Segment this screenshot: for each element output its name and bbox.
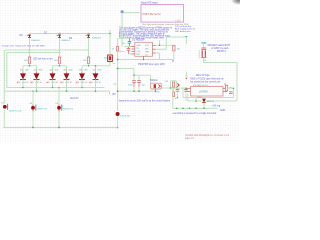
svg-text:everything is powered by a sin: everything is powered by a single 12v ba… xyxy=(173,112,218,115)
svg-text:LED: LED xyxy=(54,70,59,72)
bus corner vertical xyxy=(109,34,111,66)
diode D10 xyxy=(198,96,215,108)
left return vertical 1 xyxy=(3,50,5,104)
pin stub below U1 xyxy=(143,56,145,59)
right-top note lines xyxy=(175,25,195,33)
svg-text:MOSFET switch BATT: MOSFET switch BATT xyxy=(208,44,231,47)
svg-text:500k lin: 500k lin xyxy=(150,80,159,82)
RV3 tail resistor xyxy=(172,88,177,100)
ground bus right xyxy=(173,107,218,109)
capacitor C8 xyxy=(137,81,146,92)
U1 left pins xyxy=(132,47,135,55)
svg-text:A(D: A(D xyxy=(60,81,64,84)
svg-text:CW: CW xyxy=(156,91,160,93)
svg-text:PS8 P.25e GeTU: PS8 P.25e GeTU xyxy=(143,13,161,16)
transistor Q3 package xyxy=(199,48,206,62)
right loop wires xyxy=(173,88,237,108)
svg-text:LED: LED xyxy=(25,70,30,72)
svg-text:100uF 16 volt: 100uF 16 volt xyxy=(9,110,22,113)
left return vertical 2 xyxy=(6,53,8,88)
gnd bus junctions xyxy=(176,108,205,110)
rail2 junctions xyxy=(32,90,96,92)
svg-text:A(D: A(D xyxy=(76,81,80,84)
svg-text:THR: THR xyxy=(145,52,150,54)
svg-text:PWM 555 timer aprx 1kHz: PWM 555 timer aprx 1kHz xyxy=(138,63,166,66)
LED D8 xyxy=(76,70,89,88)
title block text xyxy=(185,134,230,140)
junctions net B xyxy=(170,87,178,89)
PSU connector box xyxy=(141,5,184,23)
bus junctions xyxy=(32,127,118,129)
wire cap feed xyxy=(173,87,186,89)
junction xyxy=(117,68,119,70)
svg-text:1N4148: 1N4148 xyxy=(207,101,215,103)
wire psu feed vertical xyxy=(121,13,123,47)
top supply bus xyxy=(30,33,111,35)
junction out xyxy=(117,59,119,61)
wire out line under U1 xyxy=(118,59,174,61)
gate net vertical xyxy=(185,37,187,44)
stub above pin1 xyxy=(159,40,161,45)
capacitor C5 cyan xyxy=(122,38,131,46)
svg-text:10n: 10n xyxy=(122,43,125,45)
svg-text:100uF 16V: 100uF 16V xyxy=(37,108,48,110)
power marker +12V xyxy=(121,11,124,13)
svg-text:+12V: +12V xyxy=(175,19,181,22)
diode D5 xyxy=(27,34,41,45)
IC U1 NE555 xyxy=(132,39,156,57)
resistor R3 xyxy=(83,45,90,66)
LED D1 xyxy=(17,70,30,88)
svg-text:not needed at low current use: not needed at low current use xyxy=(190,81,221,84)
junctions right xyxy=(177,88,235,102)
svg-text:100uF 16V: 100uF 16V xyxy=(63,108,74,110)
svg-text:Hook ATX input: Hook ATX input xyxy=(141,1,158,4)
wire U1 left pin wires xyxy=(118,47,132,55)
potentiometer RV2 xyxy=(151,83,162,93)
svg-text:A(D: A(D xyxy=(17,81,21,84)
svg-text:GND: GND xyxy=(220,110,225,112)
RC main vertical xyxy=(117,38,119,111)
wire RC bottom line xyxy=(118,90,156,92)
resistor R8 xyxy=(224,84,233,91)
capacitor C1 electrolytic left xyxy=(1,103,22,128)
drain wire to right edge xyxy=(204,58,238,101)
wire right pin2 up xyxy=(156,37,187,49)
svg-text:+5V: +5V xyxy=(112,94,117,96)
svg-text:page 1/1: page 1/1 xyxy=(185,138,195,140)
note paragraph xyxy=(119,27,173,40)
capacitor C4 polarized xyxy=(56,88,74,128)
svg-text:IRF510 s: IRF510 s xyxy=(217,51,227,53)
rail2 end stub xyxy=(109,91,111,94)
stub left of RC line xyxy=(113,83,118,85)
gate net tick xyxy=(185,35,187,37)
wire psu feed horizontal xyxy=(122,12,141,14)
svg-text:ACQ 5V: ACQ 5V xyxy=(70,97,79,100)
capacitor C11 xyxy=(229,92,233,94)
splitter T1 xyxy=(23,66,37,72)
capacitor C3 polarized xyxy=(30,91,48,127)
trimmer RV1 xyxy=(104,55,116,65)
wire right pin1 xyxy=(156,44,174,46)
svg-text:LED: LED xyxy=(38,70,43,72)
svg-text:GND: GND xyxy=(136,45,141,47)
LED D2 xyxy=(30,70,43,92)
svg-text:LM7805: LM7805 xyxy=(199,91,208,94)
capacitor C7 xyxy=(128,81,136,92)
diode D7 xyxy=(57,34,71,45)
node junctions on bus xyxy=(59,33,111,35)
junction below U1 xyxy=(143,59,145,61)
cathode rail 2 xyxy=(4,90,109,92)
splitter T3 xyxy=(82,66,96,72)
capacitor C2 electrolytic right xyxy=(114,110,132,127)
svg-text:U1 NE555P: U1 NE555P xyxy=(132,39,145,42)
svg-text:D1N4001: D1N4001 xyxy=(92,38,102,40)
rail B xyxy=(7,52,60,54)
wiper arrow RV3 xyxy=(177,83,179,86)
LED D9 xyxy=(89,70,102,92)
resistor R4 on RC line xyxy=(112,47,119,52)
RC top stub xyxy=(118,37,130,39)
cap feed wires xyxy=(118,69,151,84)
svg-text:VCC: VCC xyxy=(145,45,150,47)
svg-text:D1N4001: D1N4001 xyxy=(31,40,41,42)
ground bus bottom xyxy=(3,127,118,129)
resistor R6 xyxy=(172,46,181,62)
rail junctions xyxy=(29,49,90,53)
svg-text:12V rail from the: 12V rail from the xyxy=(175,25,192,28)
cursor smudge top right xyxy=(231,0,240,6)
svg-text:D1N4001: D1N4001 xyxy=(61,40,71,42)
rail1 junctions xyxy=(22,87,83,89)
svg-text:or 9VDC by pack: or 9VDC by pack xyxy=(211,47,229,50)
LED D4 xyxy=(60,70,73,92)
wire right pin3 xyxy=(156,53,160,60)
svg-text:A(D: A(D xyxy=(89,81,93,84)
junction RC bottom xyxy=(117,90,157,92)
svg-text:LED: LED xyxy=(84,70,89,72)
svg-text:REG 5V logic: REG 5V logic xyxy=(196,75,211,77)
resistor R2 xyxy=(54,45,61,66)
svg-text:LED will turn a turn: LED will turn a turn xyxy=(33,58,53,61)
diode D6 xyxy=(86,34,102,45)
trimmer RV3 loop xyxy=(165,81,177,88)
svg-text:ATX supply feeds all: ATX supply feeds all xyxy=(175,27,195,30)
svg-text:Orange 12V+ Yellow 12V- Red 5V: Orange 12V+ Yellow 12V- Red 5V+ Blk GND xyxy=(2,45,46,48)
ground symbol dot xyxy=(186,78,187,79)
svg-text:LED: LED xyxy=(68,70,73,72)
capacitor C9 xyxy=(176,88,180,97)
svg-text:7805 in TO220 case heat sink o: 7805 in TO220 case heat sink ok xyxy=(190,77,224,80)
capacitor C6 red xyxy=(127,47,131,55)
IC U2 7805 xyxy=(186,85,227,96)
svg-text:LED banks here: LED banks here xyxy=(175,30,191,33)
svg-text:+5V reg: +5V reg xyxy=(212,105,221,108)
svg-text:battery list on pin 100 volt 5: battery list on pin 100 volt 5v by the c… xyxy=(119,99,171,102)
note regulator xyxy=(190,75,224,83)
rail A xyxy=(4,49,88,51)
splitter junctions xyxy=(29,65,90,67)
ground symbol mid right xyxy=(185,72,188,78)
resistor R1 xyxy=(24,45,31,66)
svg-text:A(D: A(D xyxy=(30,81,34,84)
svg-text:100uF 16v: 100uF 16v xyxy=(120,116,131,118)
svg-text:(C)2004 LED Moodlight rev 1.0: (C)2004 LED Moodlight rev 1.0 sheet 1 of… xyxy=(185,134,230,137)
junction pin1 xyxy=(159,45,161,47)
svg-text:CW: CW xyxy=(165,81,169,83)
svg-text:LED: LED xyxy=(97,70,102,72)
capacitor C10 xyxy=(184,88,188,101)
splitter T2 xyxy=(53,66,67,72)
wire mid net B xyxy=(161,87,186,89)
wire to T3 xyxy=(96,65,111,67)
svg-text:A(D: A(D xyxy=(46,81,50,84)
cathode rail 1 xyxy=(7,87,105,89)
bus stub xyxy=(109,30,111,34)
junction xyxy=(95,65,97,67)
power marker right xyxy=(202,43,207,48)
U1 right pins xyxy=(152,45,155,53)
note right power xyxy=(208,44,231,53)
LED D3 xyxy=(46,70,59,88)
